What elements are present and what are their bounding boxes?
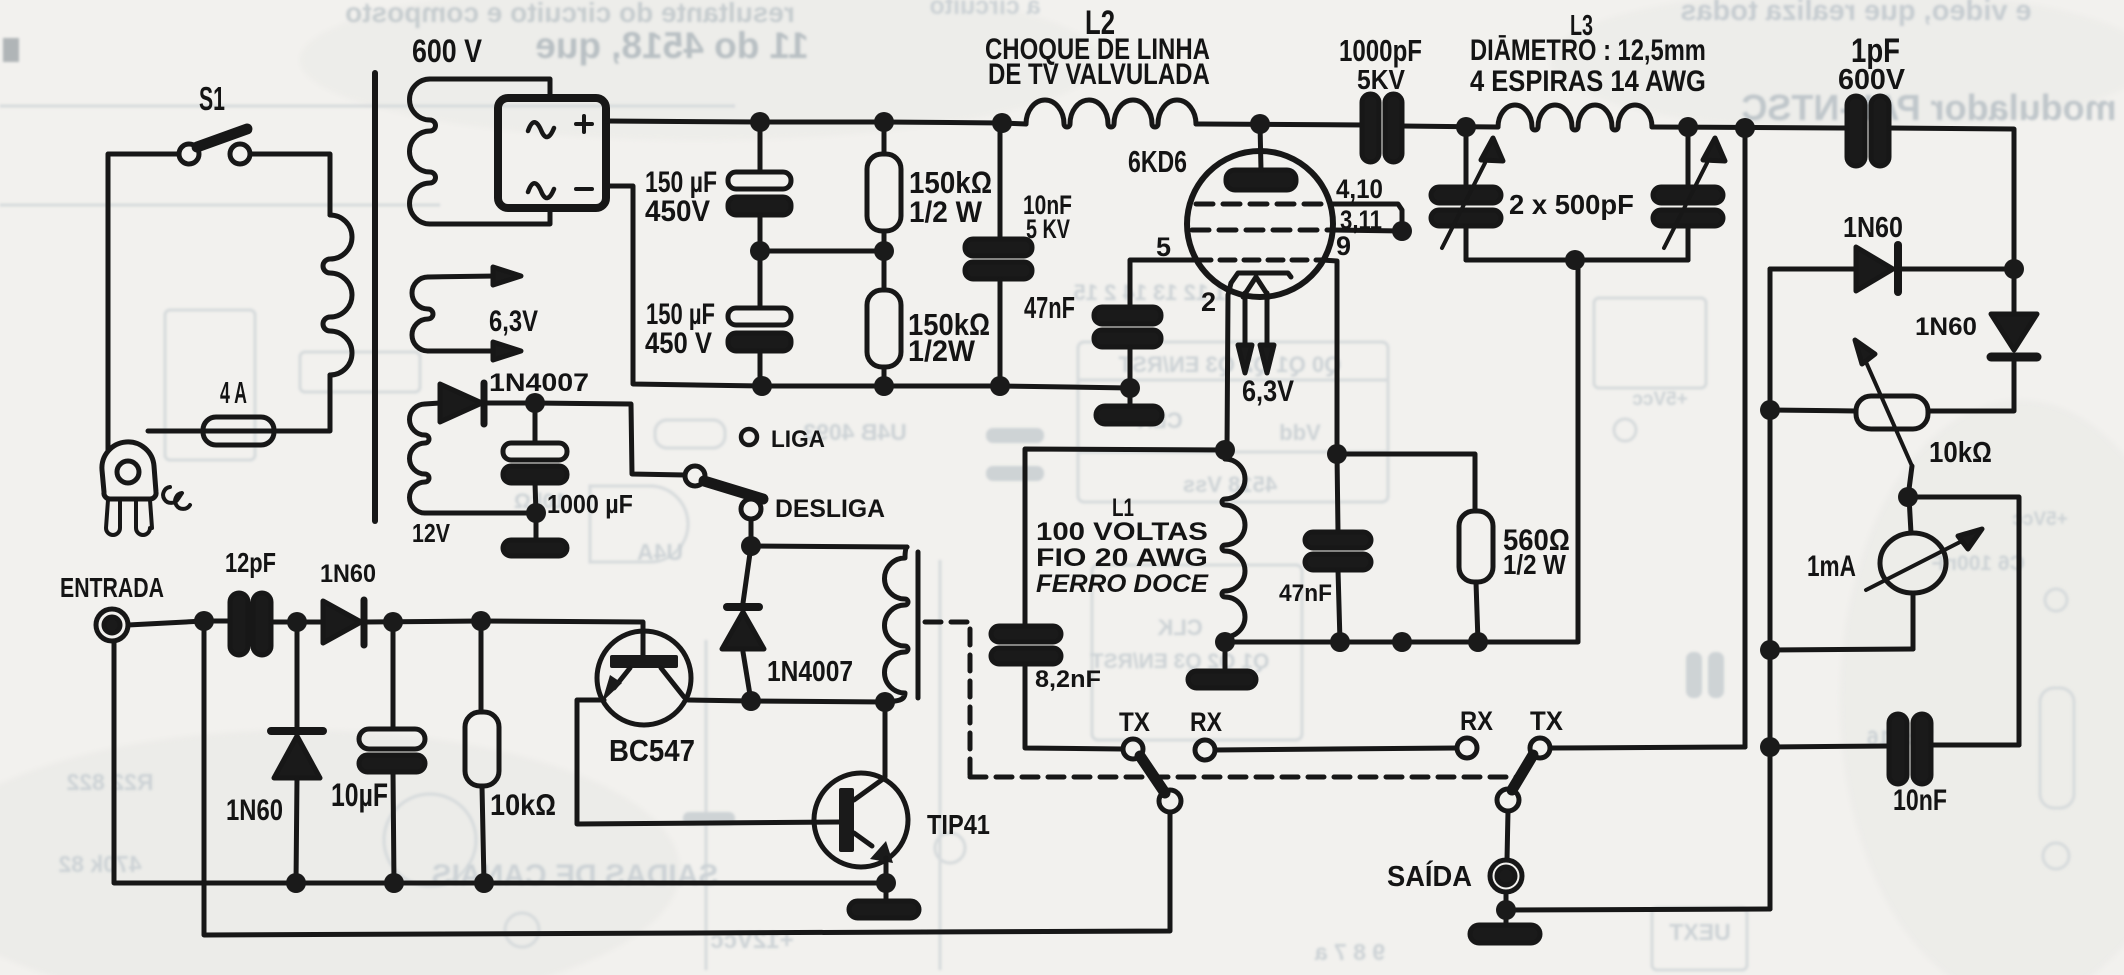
tube plate bbox=[1226, 124, 1296, 190]
svg-text:10kΩ: 10kΩ bbox=[1929, 436, 1992, 469]
svg-text:10µF: 10µF bbox=[331, 778, 388, 814]
svg-text:450 V: 450 V bbox=[645, 326, 712, 359]
wire 600V bottom to bridge bbox=[430, 210, 550, 224]
svg-text:4518 Vss: 4518 Vss bbox=[1183, 472, 1277, 497]
600V secondary winding bbox=[409, 79, 435, 224]
svg-text:R22 822: R22 822 bbox=[67, 769, 154, 795]
svg-text:470k 82: 470k 82 bbox=[58, 851, 141, 877]
svg-text:9: 9 bbox=[1336, 231, 1351, 261]
wire pin2 node to 8.2nF corner bbox=[1025, 449, 1227, 626]
svg-text:1N60: 1N60 bbox=[1843, 210, 1903, 243]
svg-text:ENTRADA: ENTRADA bbox=[60, 572, 164, 604]
svg-text:10nF: 10nF bbox=[1893, 783, 1947, 817]
svg-text:5: 5 bbox=[1156, 232, 1171, 262]
wire meter bottom to left bbox=[1770, 649, 1913, 650]
wire 1000pF to L3 bbox=[1402, 126, 1498, 127]
6.3V secondary winding bbox=[412, 277, 433, 351]
svg-text:6,3V: 6,3V bbox=[489, 303, 538, 337]
wire bridge + to top bus bbox=[606, 121, 1026, 124]
svg-text:U4A: U4A bbox=[637, 539, 683, 565]
jack shell down to ground bus bbox=[114, 641, 296, 883]
svg-text:DESLIGA: DESLIGA bbox=[775, 495, 885, 523]
wire right pole to SAIDA bbox=[1507, 811, 1508, 860]
wire 1pF to right corner down bbox=[1889, 128, 2014, 269]
svg-text:1N60: 1N60 bbox=[1915, 313, 1977, 340]
svg-text:600 V: 600 V bbox=[412, 34, 482, 70]
svg-text:FERRO DOCE: FERRO DOCE bbox=[1036, 570, 1209, 598]
diode 1N60 vertical bbox=[1928, 269, 2037, 411]
capacitor 150uF C2 bbox=[728, 251, 791, 386]
jack SAIDA bbox=[1490, 860, 1522, 892]
capacitor 8.2nF bbox=[991, 626, 1122, 749]
capacitor 10nF 5KV bbox=[965, 123, 1032, 386]
svg-text:2: 2 bbox=[1201, 287, 1216, 317]
svg-text:e video, que realiza todas: e video, que realiza todas bbox=[1680, 0, 2031, 27]
ground bus bottom left bbox=[296, 881, 886, 886]
coil L1 bbox=[1222, 450, 1245, 642]
svg-text:6,3V: 6,3V bbox=[1242, 374, 1294, 408]
svg-text:100 VOLTAS: 100 VOLTAS bbox=[1036, 517, 1208, 545]
variable capacitor 500pF right bbox=[1653, 127, 1725, 260]
svg-text:LIGA: LIGA bbox=[771, 425, 825, 452]
mid bottom bus bbox=[1225, 260, 1578, 642]
resistor 10k input bbox=[465, 621, 499, 883]
tube 6KD6 envelope bbox=[1187, 151, 1333, 297]
diode 1N60 shunt bbox=[271, 622, 323, 883]
svg-text:1N4007: 1N4007 bbox=[767, 655, 853, 687]
ground below SAIDA bbox=[1470, 910, 1540, 943]
svg-text:RX: RX bbox=[1460, 707, 1493, 737]
wire SAIDA to node bbox=[1504, 892, 1509, 910]
transistor TIP41 bbox=[814, 773, 908, 883]
svg-text:UEXT: UEXT bbox=[1669, 919, 1730, 945]
svg-text:CLK: CLK bbox=[1157, 615, 1202, 640]
svg-text:600V: 600V bbox=[1838, 64, 1906, 96]
tube grid 3 dashed (pins 5,9) bbox=[1130, 260, 1337, 454]
wire 12V bottom bbox=[425, 511, 536, 516]
wire S1 right to primary top bbox=[250, 154, 330, 215]
wire input to BC547 base bbox=[481, 621, 643, 655]
tube grid 2 dashed (pins 3,11) bbox=[1192, 230, 1402, 231]
potentiometer 10k bbox=[1770, 340, 1928, 497]
svg-text:12V: 12V bbox=[412, 519, 450, 549]
ground below TIP41 bbox=[849, 883, 919, 918]
wire relay bottom to TIP41 collector bbox=[883, 702, 888, 777]
wire mid tie caps to resistors bbox=[760, 249, 884, 254]
capacitor 1pF 600V bbox=[1847, 96, 1889, 166]
ground below 47nF grid bbox=[1096, 388, 1162, 424]
svg-text:4 ESPIRAS 14 AWG: 4 ESPIRAS 14 AWG bbox=[1470, 64, 1706, 97]
svg-text:9 8 7 a: 9 8 7 a bbox=[1315, 939, 1386, 965]
svg-text:a circuito: a circuito bbox=[929, 0, 1040, 20]
svg-text:o modulador PAL-NTSC: o modulador PAL-NTSC bbox=[1741, 87, 2124, 128]
svg-text:1000pF: 1000pF bbox=[1339, 33, 1422, 68]
svg-text:1/2W: 1/2W bbox=[908, 334, 975, 368]
svg-text:1N60: 1N60 bbox=[226, 792, 283, 826]
tube cathode bbox=[1231, 273, 1291, 283]
capacitor 1000pF 5KV bbox=[1362, 94, 1402, 162]
switch TX/RX left bbox=[1123, 739, 1215, 812]
svg-text:DE TV VALVULADA: DE TV VALVULADA bbox=[988, 56, 1210, 90]
svg-text:resultante do circuito e compo: resultante do circuito e composto bbox=[345, 0, 795, 28]
wire L3 to 1pF bbox=[1652, 127, 1849, 128]
tube cathode lead pin 2 bbox=[1227, 283, 1231, 450]
resistor 560 ohm bbox=[1337, 454, 1493, 642]
svg-text:FIO 20 AWG: FIO 20 AWG bbox=[1036, 543, 1208, 571]
svg-text:+5Vcc: +5Vcc bbox=[1632, 389, 1688, 410]
wire 12V top to diode bbox=[425, 403, 440, 404]
wire bottom right to SAIDA bbox=[1506, 909, 1770, 910]
svg-text:TX: TX bbox=[1119, 708, 1150, 737]
coil L2 choke bbox=[1026, 100, 1196, 127]
transistor BC547 bbox=[597, 631, 691, 725]
svg-text:2 x 500pF: 2 x 500pF bbox=[1509, 189, 1634, 220]
capacitor 1000uF bbox=[503, 403, 567, 513]
resistor 150k R2 bbox=[867, 251, 901, 386]
svg-text:1mA: 1mA bbox=[1807, 549, 1856, 583]
capacitor 12pF bbox=[230, 593, 323, 655]
wire detector left vertical bbox=[1768, 269, 1773, 909]
diode 1N60 detector horizontal bbox=[1770, 245, 2014, 292]
svg-text:DIĀMETRO : 12,5mm: DIĀMETRO : 12,5mm bbox=[1470, 33, 1706, 66]
svg-text:4,10: 4,10 bbox=[1336, 175, 1383, 205]
svg-text:47nF: 47nF bbox=[1024, 290, 1075, 325]
wire S1 left to plug bbox=[108, 154, 179, 450]
wire RX to RX bbox=[1215, 748, 1457, 750]
wire top bus node to TX line (long vertical) bbox=[1743, 128, 1748, 747]
svg-text:12pF: 12pF bbox=[225, 547, 276, 578]
relay core bbox=[916, 552, 921, 698]
variable capacitor 500pF left bbox=[1431, 127, 1503, 260]
svg-text:10kΩ: 10kΩ bbox=[490, 789, 556, 823]
switch RX/TX right bbox=[1457, 738, 1550, 811]
wire input line bbox=[128, 621, 232, 625]
wire L2 to 1000pF bbox=[1196, 124, 1364, 125]
wire wiper node loop right bbox=[1908, 497, 2019, 745]
ground below 1000uF bbox=[503, 513, 567, 556]
svg-text:1/2 W: 1/2 W bbox=[1503, 548, 1566, 580]
svg-text:Vdd: Vdd bbox=[1279, 420, 1321, 445]
wire 10nF row bbox=[1770, 746, 1889, 747]
wire +12V node to switch pole bbox=[535, 403, 685, 475]
jack ENTRADA bbox=[96, 609, 128, 641]
bridge rectifier bbox=[498, 98, 606, 208]
capacitor 10nF right bbox=[1889, 714, 2019, 784]
svg-text:SAIDAS DE CANAIS: SAIDAS DE CANAIS bbox=[432, 859, 719, 892]
fuse 4A bbox=[203, 417, 274, 445]
svg-text:1/2 W: 1/2 W bbox=[909, 196, 983, 229]
svg-text:BC547: BC547 bbox=[609, 734, 695, 769]
coil L3 bbox=[1498, 105, 1652, 130]
wire TX right to vertical bbox=[1550, 747, 1745, 748]
svg-text:RX: RX bbox=[1190, 707, 1222, 737]
svg-text:4 A: 4 A bbox=[220, 376, 247, 410]
svg-text:6KD6: 6KD6 bbox=[1128, 144, 1187, 179]
tube grid 1 dashed (pins 4,10) bbox=[1196, 204, 1402, 231]
diode 1N4007 flyback bbox=[722, 546, 764, 701]
svg-text:47nF: 47nF bbox=[1279, 579, 1332, 606]
svg-text:S1: S1 bbox=[199, 80, 225, 117]
svg-text:8,2nF: 8,2nF bbox=[1035, 667, 1101, 693]
svg-text:TIP41: TIP41 bbox=[927, 810, 990, 840]
tube heater bbox=[1238, 277, 1274, 373]
6.3V bottom arrow bbox=[428, 342, 521, 360]
capacitor 150uF C1 bbox=[728, 122, 791, 251]
antenna line down bbox=[204, 621, 1170, 935]
svg-text:TX: TX bbox=[1530, 705, 1563, 736]
wire BC547 collector to 1N4007 node bbox=[688, 700, 885, 702]
wire BC547 emitter to TIP41 base bbox=[577, 700, 840, 824]
wire diode to +12V node bbox=[487, 401, 535, 406]
svg-text:11 do 4518, que: 11 do 4518, que bbox=[535, 25, 809, 66]
capacitor 10uF bbox=[359, 622, 425, 883]
transformer primary winding bbox=[323, 215, 352, 375]
meter 1mA bbox=[1866, 497, 1982, 649]
svg-text:1000 µF: 1000 µF bbox=[547, 491, 633, 519]
svg-text:150 µF: 150 µF bbox=[645, 165, 717, 199]
12V secondary winding bbox=[409, 404, 429, 513]
svg-text:SAÍDA: SAÍDA bbox=[1387, 859, 1472, 892]
wire plug to fuse bbox=[148, 429, 203, 434]
svg-text:1N60: 1N60 bbox=[320, 560, 376, 588]
transformer core bbox=[372, 73, 378, 521]
wire DESLIGA contact down bbox=[749, 519, 754, 546]
switch S1 bbox=[179, 129, 250, 164]
tank bottom wire bbox=[1466, 258, 1688, 263]
wire bridge - down and ground bus bbox=[606, 186, 1130, 388]
wire DESLIGA node to relay coil bbox=[751, 546, 907, 547]
capacitor 47nF grid bbox=[1094, 307, 1161, 388]
ground below L1 bbox=[1188, 642, 1256, 688]
svg-text:1N4007: 1N4007 bbox=[489, 369, 589, 397]
svg-text:450V: 450V bbox=[645, 195, 711, 228]
wire 600V top to bridge bbox=[430, 79, 550, 96]
6.3V top arrow bbox=[428, 267, 521, 285]
AC plug bbox=[102, 442, 190, 535]
diode 1N60 series input bbox=[323, 600, 481, 645]
capacitor 47nF cathode bbox=[1305, 454, 1371, 642]
resistor 150k R1 bbox=[867, 122, 901, 251]
wire fuse to primary bottom bbox=[274, 375, 330, 431]
svg-text:5KV: 5KV bbox=[1357, 64, 1405, 96]
mechanical link dashed bbox=[925, 622, 1519, 777]
svg-text:5 KV: 5 KV bbox=[1026, 215, 1070, 245]
diode 1N4007 (12V rectifier) bbox=[440, 383, 484, 424]
switch LIGA/DESLIGA bbox=[685, 429, 763, 519]
relay coil bbox=[884, 547, 908, 702]
